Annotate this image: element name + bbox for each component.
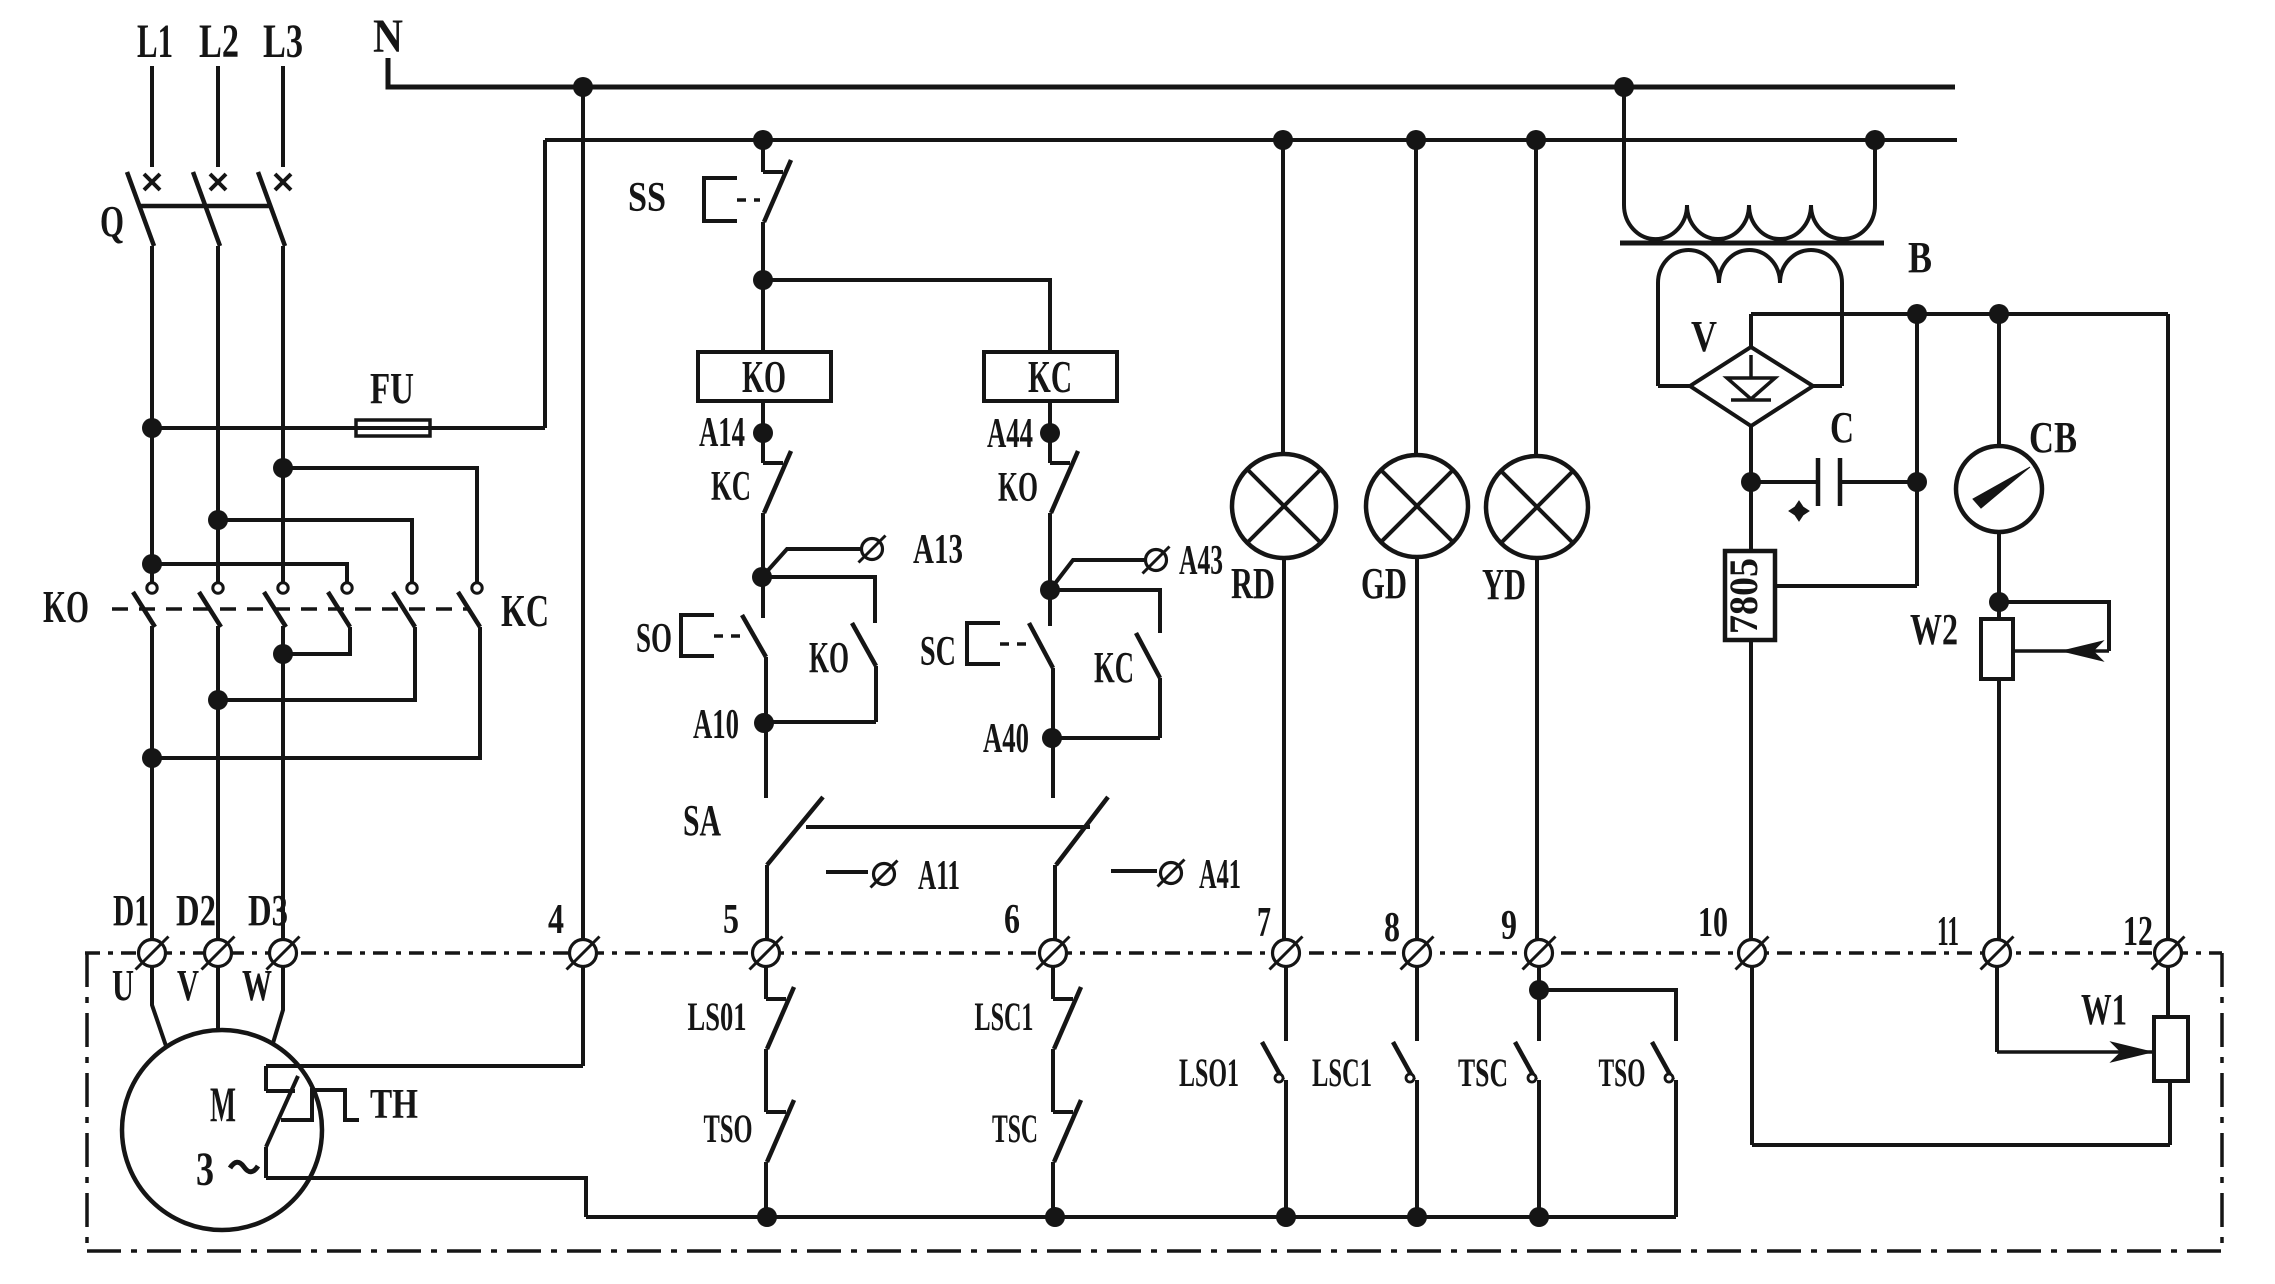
- svg-text:LSC1: LSC1: [975, 994, 1034, 1039]
- svg-text:LS01: LS01: [688, 994, 747, 1039]
- svg-text:W1: W1: [2081, 985, 2127, 1034]
- svg-text:12: 12: [2123, 909, 2153, 955]
- svg-text:FU: FU: [370, 364, 414, 413]
- svg-text:LSC1: LSC1: [1312, 1050, 1372, 1095]
- svg-text:KO: KO: [742, 351, 786, 402]
- svg-text:9: 9: [1501, 903, 1517, 949]
- svg-text:C: C: [1830, 403, 1854, 452]
- svg-text:V: V: [177, 961, 199, 1010]
- svg-text:A43: A43: [1179, 538, 1223, 584]
- svg-text:TSC: TSC: [1458, 1050, 1508, 1095]
- svg-text:L1: L1: [137, 15, 173, 68]
- svg-text:10: 10: [1698, 900, 1728, 946]
- svg-text:KO: KO: [998, 465, 1038, 511]
- svg-text:TSO: TSO: [704, 1106, 753, 1151]
- svg-text:11: 11: [1937, 909, 1959, 955]
- svg-text:RD: RD: [1231, 559, 1275, 608]
- svg-text:YD: YD: [1482, 560, 1526, 609]
- svg-text:D3: D3: [248, 886, 288, 935]
- svg-text:7805: 7805: [1721, 558, 1766, 634]
- svg-text:A41: A41: [1199, 852, 1241, 898]
- svg-text:M: M: [210, 1076, 236, 1132]
- svg-text:L2: L2: [199, 15, 239, 68]
- svg-text:B: B: [1908, 233, 1932, 282]
- svg-text:A10: A10: [693, 702, 739, 748]
- svg-text:D2: D2: [176, 886, 216, 935]
- svg-text:SS: SS: [628, 175, 666, 221]
- svg-text:L3: L3: [263, 15, 303, 68]
- svg-text:KC: KC: [501, 585, 549, 636]
- svg-text:TSO: TSO: [1599, 1050, 1646, 1095]
- svg-text:KO: KO: [809, 633, 849, 682]
- svg-text:TSC: TSC: [992, 1106, 1038, 1151]
- svg-text:KO: KO: [43, 581, 89, 632]
- svg-text:CB: CB: [2029, 413, 2077, 462]
- svg-text:KC: KC: [711, 464, 751, 510]
- svg-text:A40: A40: [983, 716, 1029, 762]
- svg-text:U: U: [112, 961, 134, 1010]
- svg-text:V: V: [1691, 312, 1717, 361]
- svg-text:Q: Q: [100, 197, 124, 246]
- svg-text:3: 3: [196, 1143, 214, 1196]
- svg-text:TH: TH: [370, 1082, 418, 1128]
- svg-text:A14: A14: [699, 410, 745, 456]
- svg-text:4: 4: [548, 897, 564, 943]
- svg-text:N: N: [373, 10, 403, 63]
- svg-text:8: 8: [1384, 905, 1400, 951]
- svg-text:6: 6: [1004, 897, 1020, 943]
- svg-text:D1: D1: [113, 886, 149, 935]
- svg-text:SO: SO: [636, 616, 672, 662]
- svg-text:SC: SC: [920, 629, 956, 675]
- svg-text:7: 7: [1257, 900, 1271, 946]
- svg-text:KC: KC: [1094, 643, 1134, 692]
- svg-text:W: W: [242, 961, 272, 1010]
- svg-text:LSO1: LSO1: [1179, 1050, 1239, 1095]
- svg-text:GD: GD: [1361, 559, 1407, 608]
- svg-text:A44: A44: [987, 411, 1033, 457]
- svg-text:A13: A13: [913, 527, 963, 573]
- svg-text:W2: W2: [1910, 605, 1958, 654]
- svg-text:KC: KC: [1028, 351, 1072, 402]
- svg-text:SA: SA: [683, 796, 721, 845]
- svg-text:A11: A11: [918, 853, 960, 899]
- svg-text:5: 5: [723, 897, 739, 943]
